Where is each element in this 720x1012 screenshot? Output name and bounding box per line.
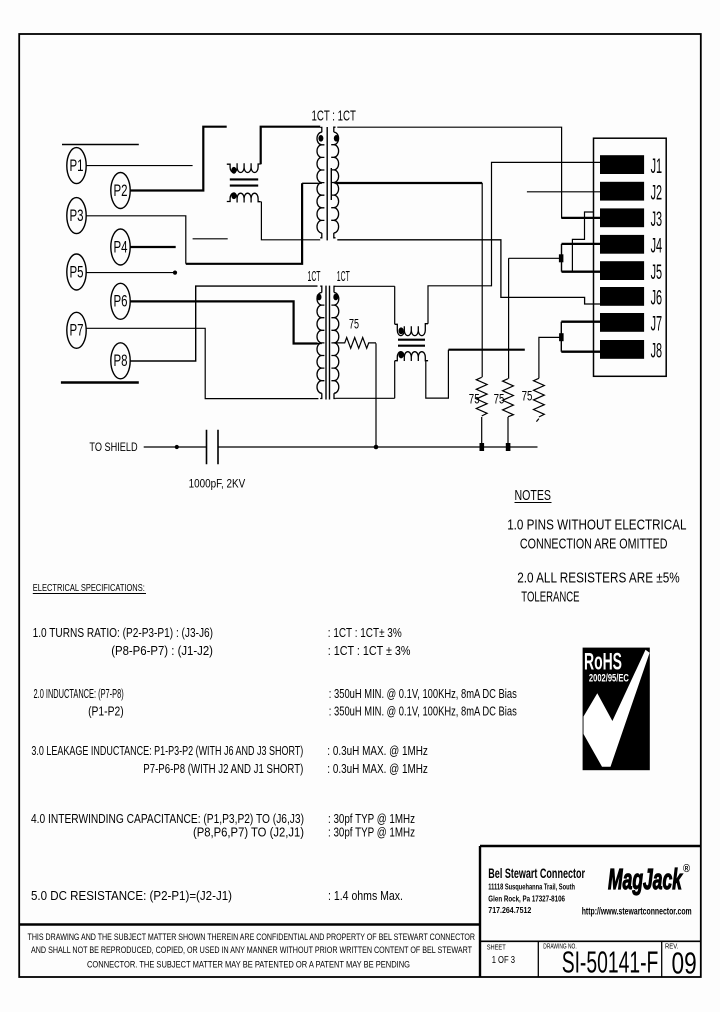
svg-text:J3: J3 bbox=[651, 208, 663, 231]
svg-text:11118 Susquehanna Trail, South: 11118 Susquehanna Trail, South bbox=[488, 882, 575, 892]
pin P6 bbox=[111, 283, 130, 319]
thick dangling stub toward J2 bbox=[448, 349, 524, 351]
T1 polarity dot right bbox=[334, 135, 339, 142]
svg-text:: 1CT : 1CT± 3%: : 1CT : 1CT± 3% bbox=[328, 626, 402, 640]
J2 pin pad bbox=[600, 182, 644, 201]
connector J block outline bbox=[594, 138, 667, 376]
vertical R2 feeder bbox=[508, 258, 510, 378]
J3 entry thick bbox=[562, 217, 600, 219]
T1 core line left bbox=[326, 127, 328, 240]
pin P3 bbox=[67, 198, 86, 234]
wire choke L1 top-right to T1 primary top bbox=[261, 127, 321, 165]
choke L2 polarity dot bottom bbox=[399, 352, 404, 359]
title block divider vertical 1 bbox=[537, 941, 539, 977]
J3 pin pad bbox=[600, 208, 644, 227]
wire P5 (dangling, end dot) bbox=[86, 272, 175, 274]
transformer T1 secondary winding bbox=[331, 127, 338, 238]
T2 secondary center tap stub bbox=[333, 342, 335, 344]
T1 primary center tap stub bbox=[318, 182, 322, 184]
svg-text:1 OF 3: 1 OF 3 bbox=[492, 954, 515, 966]
title block outline bbox=[480, 846, 701, 977]
junction dot shield x508 bbox=[506, 443, 511, 451]
TO SHIELD net right of cap bbox=[218, 446, 538, 448]
svg-text:RoHS: RoHS bbox=[584, 649, 622, 676]
svg-text:1CT : 1CT: 1CT : 1CT bbox=[312, 108, 356, 125]
transformer T1 primary winding bbox=[317, 127, 324, 237]
J8 pin pad bbox=[600, 340, 644, 359]
junction dot shield x482 bbox=[480, 443, 485, 451]
svg-text:Glen Rock, Pa 17327-8106: Glen Rock, Pa 17327-8106 bbox=[488, 893, 565, 903]
svg-text:2.0 INDUCTANCE: (P7-P8): 2.0 INDUCTANCE: (P7-P8) bbox=[34, 687, 124, 701]
J5 pin pad bbox=[600, 261, 644, 280]
svg-text:J7: J7 bbox=[651, 313, 663, 336]
svg-text:TOLERANCE: TOLERANCE bbox=[521, 590, 579, 606]
svg-text:P8: P8 bbox=[114, 351, 128, 370]
transformer T2 primary winding bbox=[317, 286, 324, 398]
wire T1 secondary top to J3 bbox=[337, 127, 600, 218]
T2 right ct resistor lead to shield bbox=[375, 343, 377, 447]
wire T1 secondary bottom to J6 bbox=[337, 240, 600, 304]
pin P8 bbox=[111, 343, 130, 379]
wire choke L1 bottom-right to T1 primary bottom bbox=[261, 202, 320, 240]
T1 secondary center tap stub bbox=[334, 182, 336, 184]
TO SHIELD wire left of cap bbox=[144, 446, 207, 448]
svg-text:P2: P2 bbox=[114, 181, 128, 200]
resistor R4 75ohm horizontal (T2 ct) bbox=[335, 338, 376, 349]
J7/J8 tie vertical bbox=[560, 322, 562, 352]
svg-text:09: 09 bbox=[672, 946, 697, 981]
svg-text:THIS DRAWING AND THE SUBJECT M: THIS DRAWING AND THE SUBJECT MATTER SHOW… bbox=[28, 932, 476, 943]
svg-text:J2: J2 bbox=[651, 182, 663, 205]
svg-text:CONNECTION ARE OMITTED: CONNECTION ARE OMITTED bbox=[520, 537, 668, 553]
vertical T1 ct down to R1 bbox=[481, 183, 483, 377]
svg-text:2.0 ALL RESISTERS ARE ±5%: 2.0 ALL RESISTERS ARE ±5% bbox=[517, 570, 680, 586]
capacitor C1 1000pF plates bbox=[207, 430, 219, 465]
svg-text:J4: J4 bbox=[651, 235, 663, 258]
svg-text:®: ® bbox=[683, 863, 690, 875]
svg-text:: 350uH MIN. @ 0.1V, 100KHz, 8: : 350uH MIN. @ 0.1V, 100KHz, 8mA DC Bias bbox=[329, 687, 517, 701]
J8 entry thick bbox=[561, 351, 600, 353]
pin P4 bbox=[111, 229, 130, 265]
wire choke L2 bottom-right to thick stub bbox=[426, 350, 449, 398]
svg-text:SHEET: SHEET bbox=[487, 943, 506, 952]
T2 primary center tap stub bbox=[318, 343, 322, 345]
svg-text:MagJack: MagJack bbox=[608, 864, 683, 896]
resistor R1 75ohm vertical bbox=[476, 377, 487, 416]
svg-text:P1: P1 bbox=[70, 156, 84, 175]
choke L2 top winding bbox=[395, 324, 428, 336]
svg-text:J1: J1 bbox=[651, 155, 663, 178]
J4/J5 tie vertical bbox=[561, 244, 563, 272]
svg-text:4.0 INTERWINDING CAPACITANCE:: 4.0 INTERWINDING CAPACITANCE: (P1,P3,P2)… bbox=[31, 812, 304, 826]
resistor R3 75ohm vertical bbox=[534, 378, 545, 417]
J4 entry thick bbox=[562, 243, 601, 245]
junction dot shield x176.8 bbox=[175, 445, 179, 449]
pin P5 bbox=[67, 254, 86, 290]
J7 pin pad bbox=[600, 313, 644, 332]
svg-text:NOTES: NOTES bbox=[515, 487, 552, 504]
wire T1 secondary center tap to R1 bbox=[335, 182, 482, 184]
wire T2 sec bottom into choke L2 bbox=[336, 397, 395, 399]
svg-text:SI-50141-F: SI-50141-F bbox=[562, 945, 659, 980]
svg-text:J5: J5 bbox=[651, 261, 663, 284]
svg-text:P4: P4 bbox=[114, 237, 128, 256]
title block divider horizontal bbox=[480, 940, 701, 942]
dangling segment near P4 row bbox=[193, 238, 228, 240]
svg-text:: 30pf TYP @ 1MHz: : 30pf TYP @ 1MHz bbox=[328, 826, 415, 840]
T2 polarity dot left bbox=[317, 294, 322, 301]
svg-text:75: 75 bbox=[522, 387, 533, 403]
T2 polarity dot right bbox=[333, 294, 338, 301]
svg-text:3.0 LEAKAGE INDUCTANCE: P1-: 3.0 LEAKAGE INDUCTANCE: P1-P3-P2 (WITH J… bbox=[31, 744, 303, 758]
wire T2 sec top into choke L2 bbox=[336, 285, 395, 287]
choke L1 top winding bbox=[227, 163, 261, 172]
wire P8 to T2 left top bbox=[130, 286, 317, 361]
svg-text:P6: P6 bbox=[114, 292, 128, 311]
svg-text:Bel Stewart Connector: Bel Stewart Connector bbox=[488, 866, 585, 881]
wire P7 to T2 left bottom bbox=[86, 328, 318, 398]
svg-text:5.0 DC RESISTANCE: (P2-P1)=(J: 5.0 DC RESISTANCE: (P2-P1)=(J2-J1) bbox=[31, 889, 232, 903]
svg-text:1CT: 1CT bbox=[337, 268, 350, 285]
title block divider vertical 2 bbox=[661, 941, 663, 977]
svg-text:P7: P7 bbox=[70, 321, 84, 340]
svg-text:1.0 PINS WITHOUT ELECTRICAL: 1.0 PINS WITHOUT ELECTRICAL bbox=[507, 517, 686, 533]
T1 polarity dot left bbox=[318, 135, 323, 142]
wire J2 (dangling left end) bbox=[527, 191, 600, 193]
svg-text:1.0 TURNS RATIO: (P2-P3-P1) :: 1.0 TURNS RATIO: (P2-P3-P1) : (J3-J6) bbox=[33, 626, 213, 640]
J5 entry thick bbox=[562, 271, 601, 273]
wire P3 to T1 left center tap bbox=[86, 216, 186, 264]
svg-text:: 1CT : 1CT ± 3%: : 1CT : 1CT ± 3% bbox=[328, 644, 411, 658]
svg-text:(P8,P6,P7) TO (J2,J1): (P8,P6,P7) TO (J2,J1) bbox=[193, 826, 304, 840]
svg-text:1CT: 1CT bbox=[308, 268, 321, 285]
svg-text:: 350uH MIN. @ 0.1V, 100KHz, 8: : 350uH MIN. @ 0.1V, 100KHz, 8mA DC Bias bbox=[329, 705, 517, 719]
svg-text:J6: J6 bbox=[651, 287, 663, 310]
svg-text:: 1.4 ohms Max.: : 1.4 ohms Max. bbox=[328, 889, 403, 903]
T2 core lines bbox=[326, 286, 330, 400]
wire J1 net: choke L2 top-right up to J1 bbox=[428, 162, 600, 323]
wire P4 (dangling) bbox=[130, 246, 176, 248]
svg-text:TO SHIELD: TO SHIELD bbox=[89, 440, 137, 454]
svg-text:(P1-P2): (P1-P2) bbox=[88, 705, 124, 719]
transformer T2 secondary winding bbox=[331, 286, 338, 398]
R2 bottom lead to shield bbox=[507, 417, 509, 447]
junction dot J7/J8 feeder bbox=[559, 333, 564, 341]
choke L2 core bbox=[398, 340, 425, 346]
J4 pin pad bbox=[600, 235, 644, 254]
svg-text:: 0.3uH MAX. @ 1MHz: : 0.3uH MAX. @ 1MHz bbox=[327, 762, 428, 776]
J1 pin pad bbox=[600, 155, 644, 174]
svg-text:1000pF, 2KV: 1000pF, 2KV bbox=[189, 477, 246, 491]
staircase wire near block edge bbox=[572, 212, 593, 272]
pin P2 bbox=[111, 173, 130, 209]
J7 entry thick bbox=[561, 321, 600, 323]
svg-text:http://www.stewartconnector.co: http://www.stewartconnector.com bbox=[582, 907, 692, 918]
svg-text:P5: P5 bbox=[70, 262, 84, 281]
resistor R2 75ohm vertical bbox=[503, 379, 514, 417]
wire J7/J8 termination feeder from R3 bbox=[539, 337, 561, 378]
svg-text:75: 75 bbox=[494, 390, 505, 406]
J6 pin pad bbox=[600, 287, 644, 306]
wire P2 to choke L1 top bbox=[130, 127, 227, 191]
RoHS logo box bbox=[583, 648, 650, 771]
T1 core line right (partial) bbox=[330, 168, 332, 200]
svg-text:AND SHALL NOT BE REPRODUCED, C: AND SHALL NOT BE REPRODUCED, COPIED, OR … bbox=[31, 945, 472, 956]
pin P1 bbox=[67, 148, 86, 184]
svg-text:P3: P3 bbox=[70, 206, 84, 225]
choke L2 left leads verticals bbox=[394, 286, 396, 398]
wire J4/J5 termination feeder bbox=[509, 257, 561, 259]
choke L2 bottom winding bbox=[395, 352, 428, 361]
svg-text:CONNECTOR. THE SUBJECT MATTER: CONNECTOR. THE SUBJECT MATTER MAY BE PAT… bbox=[87, 960, 410, 971]
svg-text:: 0.3uH MAX. @ 1MHz: : 0.3uH MAX. @ 1MHz bbox=[327, 744, 428, 758]
wire P1 (dangling) bbox=[86, 165, 192, 167]
svg-text:75: 75 bbox=[469, 390, 480, 406]
choke L1 core bbox=[230, 179, 258, 185]
bar below P8 bbox=[61, 381, 139, 383]
choke L1 polarity dot top bbox=[231, 167, 236, 174]
bottom band top line bbox=[19, 923, 480, 925]
svg-text:ELECTRICAL SPECIFICATIONS:: ELECTRICAL SPECIFICATIONS: bbox=[33, 582, 145, 594]
RoHS checkmark bbox=[584, 650, 650, 767]
wire P6 to T2 left center tap bbox=[130, 301, 317, 343]
choke L1 bottom winding bbox=[227, 193, 261, 202]
svg-text:2002/95/EC: 2002/95/EC bbox=[589, 673, 629, 685]
junction dot P5 end bbox=[173, 271, 177, 275]
choke L1 polarity dot bottom bbox=[231, 192, 236, 199]
svg-text:(P8-P6-P7) : (J1-J2): (P8-P6-P7) : (J1-J2) bbox=[111, 644, 213, 658]
svg-text:: 30pf TYP @ 1MHz: : 30pf TYP @ 1MHz bbox=[328, 812, 415, 826]
R1 bottom lead to shield bbox=[481, 417, 483, 447]
svg-text:J8: J8 bbox=[651, 340, 663, 363]
R3 bottom hook (dangling) bbox=[536, 419, 539, 422]
svg-text:75: 75 bbox=[349, 315, 359, 331]
junction dot shield x376 bbox=[374, 445, 379, 450]
svg-text:P7-P6-P8 (WITH J2 AND J1 SHORT: P7-P6-P8 (WITH J2 AND J1 SHORT) bbox=[143, 762, 303, 776]
svg-text:717.264.7512: 717.264.7512 bbox=[488, 905, 531, 915]
bar above P1 bbox=[62, 144, 139, 146]
choke L2 polarity dot top bbox=[399, 327, 404, 334]
pin P7 bbox=[67, 312, 86, 348]
junction dot J4/J5 feeder bbox=[559, 254, 564, 262]
